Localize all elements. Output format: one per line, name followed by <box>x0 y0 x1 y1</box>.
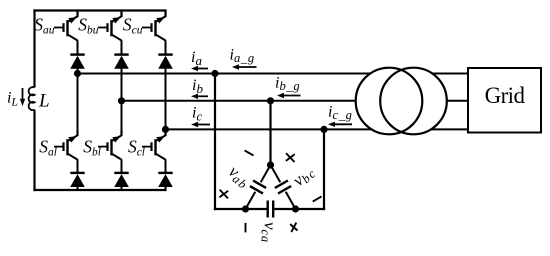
node b <box>118 97 125 104</box>
node: C_ab / C_bc apex <box>267 161 274 168</box>
grid box <box>468 68 541 133</box>
svg-text:Scu: Scu <box>123 15 143 37</box>
current arrow i_a_g <box>232 64 257 69</box>
diode D_bl <box>114 173 129 187</box>
node b_g tap <box>267 97 274 104</box>
wire node b to S_bl <box>121 101 123 130</box>
current arrow i_a <box>191 66 208 71</box>
svg-text:vca: vca <box>259 222 280 243</box>
svg-text:L: L <box>38 91 50 112</box>
capacitor C_ca <box>268 201 274 218</box>
diode D_cu <box>158 55 173 69</box>
wire capacitor-bank left drop <box>214 74 216 211</box>
transistor S_cu <box>142 11 166 41</box>
wire left DC rail upper segment <box>33 9 35 87</box>
polarity minus (C_ca left) <box>245 223 247 233</box>
svg-text:vab: vab <box>224 162 255 192</box>
current arrow i_b_g <box>277 93 301 98</box>
wire S_au emitter to D_au <box>77 40 79 54</box>
svg-text:vbc: vbc <box>289 161 319 191</box>
svg-text:Sau: Sau <box>34 15 55 37</box>
wire node a to S_al <box>77 74 79 130</box>
current arrow i_L <box>20 88 25 106</box>
current arrow i_b <box>191 94 208 99</box>
wire S_bl emitter to D_bl <box>121 159 123 173</box>
polarity plus (C_bc top) <box>286 153 295 162</box>
svg-text:Sal: Sal <box>39 137 57 159</box>
wire left DC rail lower segment <box>33 110 35 191</box>
wire capacitor-bank bottom left segment <box>214 208 267 210</box>
polarity minus (C_bc right) <box>313 196 322 201</box>
node a <box>74 70 81 77</box>
polarity plus (C_ca right) <box>290 223 297 232</box>
svg-text:ia_g: ia_g <box>230 47 255 66</box>
current arrow i_c <box>191 122 210 127</box>
wire D_al to bottom rail <box>77 186 79 190</box>
transistor S_al <box>54 130 78 160</box>
wire phase b line <box>122 100 469 102</box>
diode D_au <box>70 55 85 69</box>
transformer T1 <box>356 68 447 135</box>
diode D_cl <box>158 173 173 187</box>
transistor S_bl <box>98 130 122 160</box>
wire S_bu emitter to D_bu <box>121 40 123 54</box>
transistor S_au <box>54 11 78 41</box>
wire D_bu to node b <box>121 68 123 101</box>
wire D_cl to bottom rail <box>165 186 167 191</box>
wire S_cu emitter to D_cu <box>165 40 167 54</box>
wire capacitor-bank bottom right segment <box>274 208 325 210</box>
svg-text:ib_g: ib_g <box>275 75 300 94</box>
svg-text:ia: ia <box>191 49 202 68</box>
diode D_bu <box>114 55 129 69</box>
wire phase c line <box>166 128 469 130</box>
wire capacitor-bank centre drop <box>269 101 271 165</box>
svg-text:ic_g: ic_g <box>328 104 353 123</box>
wire bottom DC rail <box>33 189 166 191</box>
transistor S_cl <box>142 130 166 160</box>
polarity minus (C_ab top) <box>245 150 254 155</box>
capacitor C_ab <box>246 165 271 209</box>
svg-text:ic: ic <box>192 105 202 124</box>
node a_g tap <box>211 70 218 77</box>
capacitor C_bc <box>271 165 296 209</box>
node: C_ab bottom junction <box>242 205 249 212</box>
wire S_cl emitter to D_cl <box>165 159 167 173</box>
wire D_au to node a <box>77 68 79 74</box>
polarity plus (C_ab left) <box>219 190 228 199</box>
transistor S_bu <box>98 11 122 41</box>
wire D_cu to node c <box>165 68 167 130</box>
node c <box>162 126 169 133</box>
svg-text:iL: iL <box>7 90 18 109</box>
inductor L <box>29 87 35 110</box>
diode D_al <box>70 173 85 187</box>
node: C_bc bottom junction <box>292 205 299 212</box>
wire S_al emitter to D_al <box>77 159 79 173</box>
current arrow i_c_g <box>328 122 352 127</box>
wire D_bl to bottom rail <box>121 186 123 190</box>
svg-text:ib: ib <box>192 77 203 96</box>
svg-text:Sbu: Sbu <box>78 15 99 37</box>
wire top DC rail <box>33 9 166 11</box>
wire phase a line <box>78 73 469 75</box>
node c_g tap <box>320 126 327 133</box>
svg-text:Scl: Scl <box>128 137 145 159</box>
wire capacitor-bank right drop <box>323 129 325 210</box>
svg-text:Sbl: Sbl <box>83 137 101 159</box>
svg-text:Grid: Grid <box>485 83 526 108</box>
